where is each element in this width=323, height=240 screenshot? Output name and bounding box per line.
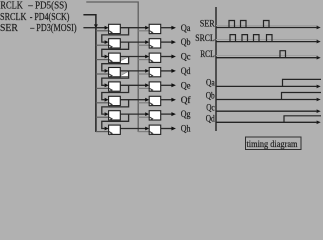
svg-text:Qf: Qf [181,95,192,106]
wire latch L3 output to pin Qc [161,56,173,58]
shift register flip-flop U7 [109,111,121,120]
timing signal Qd baseline [216,121,317,123]
wire latch L1 output to pin Qa [161,27,173,29]
svg-text:- PD4(SCK): - PD4(SCK) [30,11,70,23]
arrowhead of Qb axis [317,98,321,102]
wire Q of U5 to latch L5 D input [120,84,145,86]
clock chevron of latch L5 [150,88,153,91]
svg-text:Qc: Qc [181,53,191,63]
svg-text:Qh: Qh [181,125,191,135]
output arrowhead Qd [171,69,176,73]
shift register flip-flop U4 [109,68,121,77]
timing signal Qc baseline [216,110,317,112]
arrowhead of Qc axis [317,109,321,113]
wire serial feedback U4 to U5 [102,71,129,85]
wire latch L7 output to pin Qg [161,113,173,115]
clock chevron of latch L2 [150,45,153,48]
wire SRCLK net: horizontal from label then vertical clock bus [83,15,96,132]
wire SRCLK clock stub to shift FF3 [96,59,109,61]
clock chevron of shift FF U8 [109,132,112,135]
wire Q of U7 to latch L7 D input [120,113,145,115]
clock chevron of shift FF U4 [109,74,112,77]
D input arrowhead of latch L6 [145,98,149,102]
wire RCLK clock stub to latch FF2 [138,44,149,46]
storage latch flip-flop L1 [149,24,161,33]
clock chevron of latch L3 [150,60,153,63]
shift register flip-flop U6 [109,96,121,105]
svg-text:Qb: Qb [181,38,191,48]
D input arrowhead of shift FF U2 [105,40,109,44]
white wedge artifact below row-4 wire [119,71,128,76]
storage latch flip-flop L6 [149,96,161,105]
svg-text:SRCL: SRCL [195,33,214,43]
wire serial feedback U6 to U7 [102,100,129,114]
wire Q of U4 to latch L4 D input [120,70,145,72]
timing signal SRCLK baseline [216,41,317,43]
wire RCLK clock stub to latch FF6 [138,102,149,104]
wire RCLK clock stub to latch FF3 [138,59,149,61]
svg-text:Qe: Qe [181,81,191,91]
arrowhead of SER axis [317,26,321,30]
storage latch flip-flop L7 [149,111,161,120]
clock chevron of shift FF U7 [109,117,112,120]
wire serial feedback U7 to U8 [102,114,129,128]
svg-text:RCL: RCL [200,49,215,59]
D input arrowhead of shift FF U3 [105,55,109,59]
clock chevron of shift FF U2 [109,45,112,48]
wire latch L8 output to pin Qh [161,128,173,130]
wire SRCLK clock stub to shift FF4 [96,73,109,75]
pulse on SER at x=229 [229,21,235,28]
wire SRCLK clock stub to shift FF1 [96,30,109,32]
svg-text:Qb: Qb [206,91,215,101]
svg-text:Qg: Qg [181,110,191,120]
wire Q of U3 to latch L3 D input [120,56,145,58]
wire Q of U1 to latch L1 D input [120,27,145,29]
output arrowhead Qc [171,55,176,59]
svg-text:SER: SER [200,19,215,29]
arrowhead of SRCLK axis [317,40,321,44]
output arrowhead Qa [171,26,176,30]
svg-text:Qd: Qd [181,67,191,77]
timing diagram vertical axis [215,7,217,131]
wire SRCLK clock stub to shift FF6 [96,102,109,104]
pulse on SRCLK at x=242 [242,35,248,42]
wire latch L4 output to pin Qd [161,70,173,72]
wire serial feedback U5 to U6 [102,85,129,99]
svg-text:SER: SER [0,22,18,34]
D input arrowhead of shift FF U7 [105,112,109,116]
white wedge artifact below row-3 wire [119,57,129,64]
timing signal SER baseline [216,27,317,29]
D input arrowhead of shift FF U8 [105,127,109,131]
pulse on SRCLK at x=230 [230,35,236,42]
D input arrowhead of latch L3 [145,55,149,59]
output arrowhead Qb [171,40,176,44]
shift register flip-flop U1 [109,24,121,33]
pulse on SRCLK at x=253.5 [254,35,260,42]
clock chevron of latch L4 [150,74,153,77]
wire RCLK clock stub to latch FF1 [138,30,149,32]
svg-text:Qa: Qa [206,78,215,88]
arrowhead of RCLK axis [317,56,321,60]
storage latch flip-flop L3 [149,53,161,62]
wire serial feedback U2 to U3 [102,42,129,56]
pulse on RCLK at x=280 [280,51,286,58]
D input arrowhead of latch L7 [145,112,149,116]
shift register flip-flop U5 [109,82,121,91]
D input arrowhead of latch L4 [145,69,149,73]
D input arrowhead of shift FF U6 [105,98,109,102]
wire Q of U8 to latch L8 D input [120,128,145,130]
storage latch flip-flop L4 [149,68,161,77]
storage latch flip-flop L8 [149,125,161,134]
D input arrowhead of latch L1 [145,26,149,30]
rising step on Qa [283,79,322,86]
clock chevron of latch L8 [150,132,153,135]
shift register flip-flop U3 [109,53,121,62]
rising step on Qb [282,93,322,100]
output arrowhead Qh [171,127,176,131]
wire RCLK clock stub to latch FF8 [138,131,149,133]
clock chevron of shift FF U3 [109,60,112,63]
pulse on SER at x=263.5 [264,21,270,28]
storage latch flip-flop L5 [149,82,161,91]
shift register flip-flop U2 [109,39,121,48]
ghost artifact line above SRCLK baseline [216,39,318,41]
timing signal Qa baseline [216,85,317,87]
arrowhead down on SRCLK clock bus [94,24,98,28]
ghost artifact line above RCLK baseline [216,55,318,57]
wire SRCLK clock stub to shift FF7 [96,116,109,118]
svg-text:timing diagram: timing diagram [247,140,299,150]
timing signal Qb baseline [216,99,317,101]
svg-text:Qa: Qa [181,24,191,34]
clock chevron of shift FF U5 [109,88,112,91]
wire Q of U6 to latch L6 D input [120,99,145,101]
wire RCLK clock stub to latch FF5 [138,87,149,89]
output arrowhead Qe [171,83,176,87]
clock chevron of latch L7 [150,117,153,120]
wire latch L6 output to pin Qf [161,99,173,101]
wire latch L2 output to pin Qb [161,41,173,43]
D input arrowhead of shift FF U4 [105,69,109,73]
D input arrowhead of latch L5 [145,83,149,87]
svg-text:– PD3(MOSI): – PD3(MOSI) [29,22,76,34]
wire RCLK clock stub to latch FF7 [138,116,149,118]
dark bottom border of row-4 wedge [119,76,128,78]
clock chevron of shift FF U1 [109,31,112,34]
clock chevron of latch L6 [150,103,153,106]
storage latch flip-flop L2 [149,39,161,48]
clock chevron of shift FF U6 [109,103,112,106]
D input arrowhead of shift FF U1 [105,26,109,30]
ghost artifact line above SER baseline [216,24,318,26]
wire SRCLK clock stub to shift FF5 [96,87,109,89]
D input arrowhead of latch L2 [145,40,149,44]
pulse on SRCLK at x=266.5 [267,35,273,42]
wire serial feedback U3 to U4 [102,57,129,71]
timing signal RCLK baseline [216,57,317,59]
wire serial feedback U1 to U2 [102,28,129,42]
caption box "timing diagram" [246,137,302,150]
D input arrowhead of shift FF U5 [105,83,109,87]
shift register flip-flop U8 [109,125,121,134]
wire SRCLK clock stub to shift FF8 [96,131,109,133]
clock chevron of latch L1 [150,31,153,34]
pulse on SER at x=240.5 [241,21,247,28]
svg-text:Qc: Qc [206,102,215,112]
wire Q of U2 to latch L2 D input [120,41,145,43]
wire SER input to first shift flip-flop D [83,27,105,29]
wire SRCLK clock stub to shift FF2 [96,44,109,46]
wire RCLK net: horizontal from label then vertical bus down right of latch column [86,2,138,132]
svg-text:SRCLK: SRCLK [0,11,27,23]
svg-text:Qd: Qd [206,114,215,124]
arrowhead of Qa axis [317,85,321,89]
D input arrowhead of latch L8 [145,127,149,131]
arrowhead of Qd axis [317,121,321,125]
output arrowhead Qg [171,112,176,116]
wire RCLK clock stub to latch FF4 [138,73,149,75]
output arrowhead Qf [171,98,176,102]
wire latch L5 output to pin Qe [161,84,173,86]
rising step on Qd [284,116,321,123]
